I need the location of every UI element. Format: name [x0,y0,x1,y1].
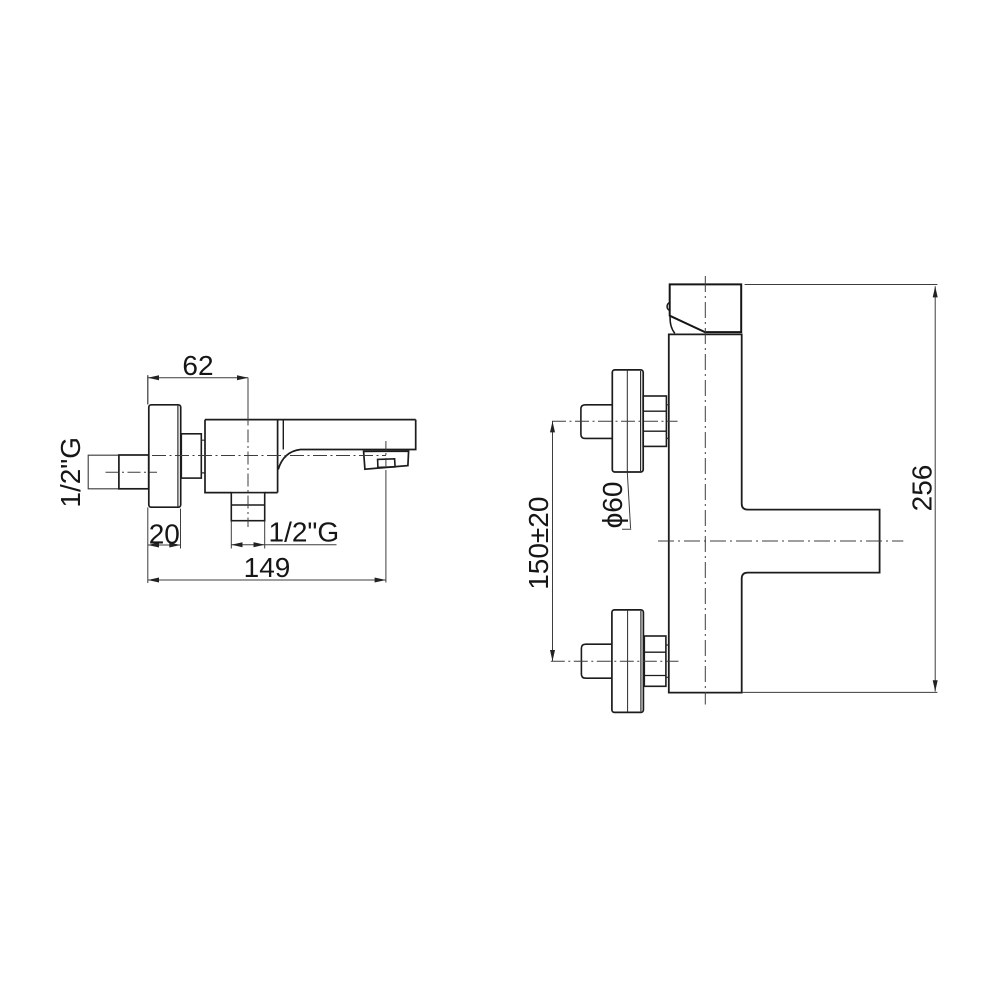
lever tip curve [670,316,675,333]
outlet dimension line [231,544,264,546]
bottom union thread pipe [581,644,612,678]
svg-text:ϕ60: ϕ60 [597,482,628,529]
top escutcheon center mark [626,371,628,472]
bottom union escutcheon [612,610,644,713]
svg-text:1/2"G: 1/2"G [269,517,340,548]
dimension 62 line [148,377,248,379]
wall plate [149,405,181,507]
supply nipple (thick) [119,455,149,489]
svg-text:20: 20 [149,519,180,550]
dimension 62 extension line [147,375,149,404]
connector nipple [181,434,201,478]
mixer body (side view) [205,420,278,493]
body horizontal centerline [152,455,386,457]
bottom escutcheon center mark [627,611,629,712]
bottom escutcheon face line [640,611,642,711]
spout top edge [205,419,416,421]
bottom union nut [644,636,666,686]
aerator centerline extension to 149 dim [385,472,387,583]
diameter 60 leader [622,473,631,530]
front-view body [669,334,880,692]
body vertical centerline [247,378,249,426]
dimension 149 line [148,579,386,581]
spout tip and underside [278,420,416,470]
dimension 256 line [934,286,936,691]
aerator centerline [385,441,387,472]
bottom union tail ticks [666,645,669,677]
top union centerline [552,420,678,422]
dimension 20 line [148,544,181,546]
connector tail ticks [201,440,205,473]
spout axis centerline [658,540,903,542]
bottom union centerline [551,660,679,662]
top union tail ticks [666,405,668,439]
svg-text:256: 256 [907,465,938,512]
top union thread pipe [581,405,612,439]
outlet dimension extension lines [231,522,264,549]
aerator housing [364,451,409,469]
supply pipe centerline [106,471,158,473]
aerator insert [378,459,396,468]
svg-text:150±20: 150±20 [523,497,554,590]
spout-body joint line [282,420,284,450]
shower outlet 1/2"G [231,493,264,521]
top union escutcheon [612,370,643,472]
front-view vertical centerline [704,276,706,705]
top union nut [643,396,666,446]
svg-text:62: 62 [182,350,213,381]
handle pin arc [667,303,670,311]
dimension 149 extension line left [147,375,149,583]
supply pipe 1/2"G (side view, thin) [88,455,119,489]
top union nut facets [643,411,666,431]
top escutcheon face line [640,371,642,471]
dimension 20 extension line right [180,509,182,549]
bottom union nut facets [644,652,666,675]
wall plate front face line [177,406,179,507]
outlet dimension tail [265,544,337,546]
dimension 150±20 line [552,421,554,661]
svg-text:1/2"G: 1/2"G [55,437,86,508]
dimension 256 extension top [745,284,938,286]
svg-text:149: 149 [244,552,291,583]
shower outlet collar line [231,504,264,506]
dimension 256 extension bottom [742,691,937,693]
handle block [670,284,742,332]
